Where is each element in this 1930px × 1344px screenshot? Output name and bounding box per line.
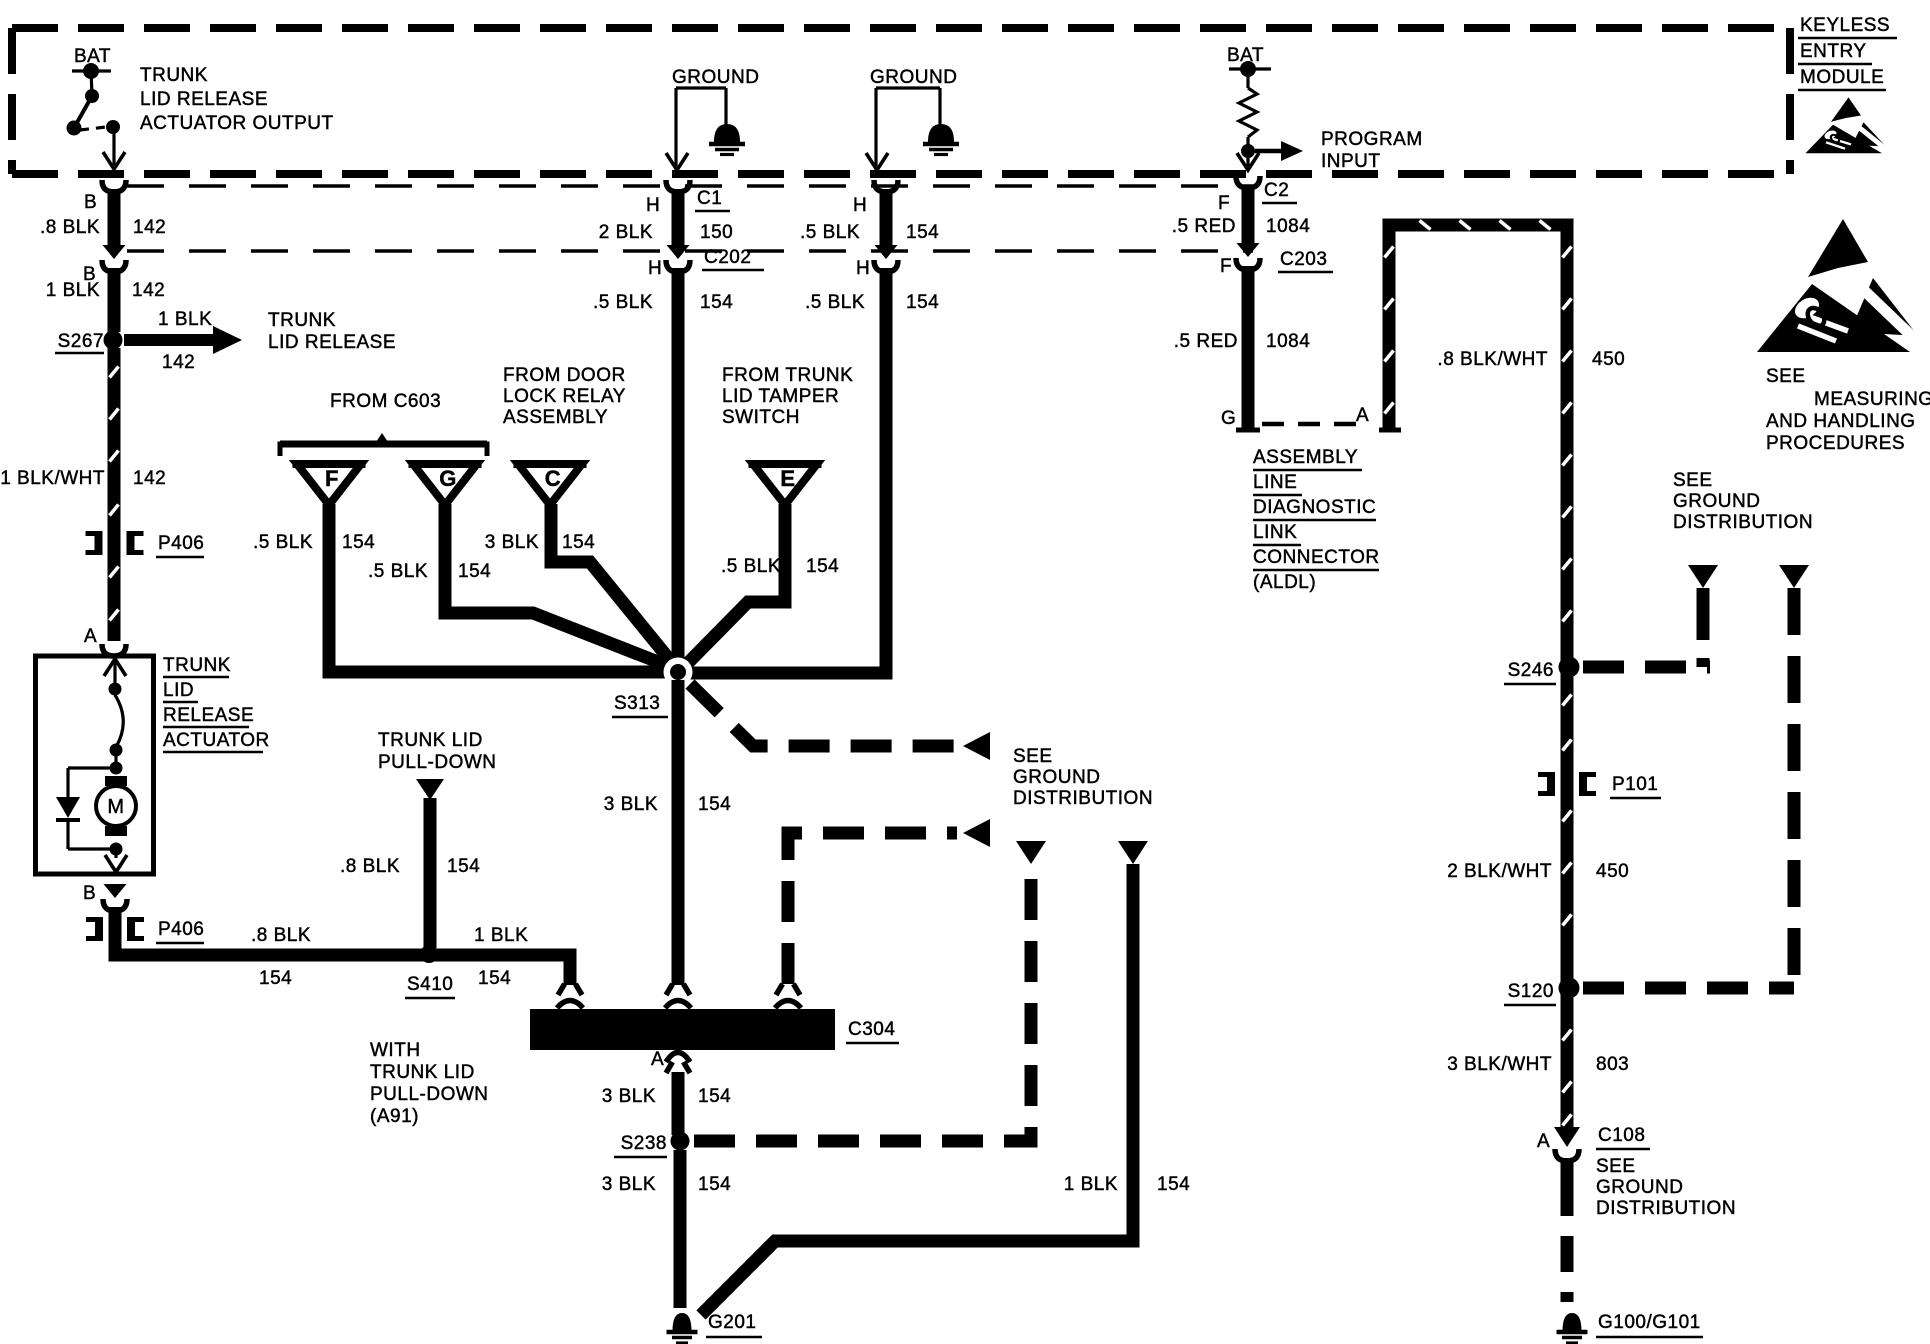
connector C108 name (1596, 1125, 1650, 1149)
svg-text:TRUNK LID: TRUNK LID (378, 730, 483, 751)
svg-text:S120: S120 (1508, 981, 1554, 1002)
svg-text:SEE: SEE (1766, 366, 1806, 387)
TRUNK LID RELEASE ACTUATOR OUTPUT label (140, 65, 334, 134)
svg-text:TRUNK: TRUNK (163, 655, 231, 676)
label .8 BLK (40, 217, 100, 238)
svg-text:1084: 1084 (1266, 216, 1310, 237)
trunk lid release actuator box (36, 656, 154, 874)
arrow into module edge (666, 153, 688, 170)
wire 3 BLK 154 from S238 to G201 (674, 1150, 687, 1308)
connector C108 pin A arrow (1554, 1127, 1580, 1147)
junction to motor (110, 754, 123, 775)
svg-text:154: 154 (259, 968, 292, 989)
svg-text:KEYLESS: KEYLESS (1800, 15, 1890, 36)
svg-text:G100/G101: G100/G101 (1598, 1312, 1701, 1333)
pin A label (1356, 405, 1369, 426)
switch blade (67, 96, 93, 136)
svg-text:154: 154 (1157, 1174, 1190, 1195)
wire .5 RED 1084 (1242, 185, 1255, 243)
dashed wire S238 to ground distribution arrow (694, 866, 1031, 1141)
PROGRAM INPUT label (1321, 129, 1423, 172)
GROUND label (left) (672, 67, 759, 88)
svg-text:142: 142 (133, 217, 166, 238)
label 154 (478, 968, 511, 989)
svg-text:(A91): (A91) (370, 1106, 419, 1127)
svg-text:LID: LID (163, 680, 194, 701)
label 154 (F) (342, 532, 375, 553)
wire 2 BLK 150 (672, 189, 685, 245)
svg-text:ASSEMBLY: ASSEMBLY (503, 407, 608, 428)
connector C203 pin F hook (1236, 258, 1260, 270)
keyless entry module dashed box: right edge (1786, 28, 1794, 174)
svg-text:154: 154 (562, 532, 595, 553)
actuator output arrow (down) (105, 855, 127, 872)
svg-text:154: 154 (698, 794, 731, 815)
in-line connector P406 (86, 531, 205, 557)
svg-text:GROUND: GROUND (1013, 767, 1100, 788)
svg-text:LINE: LINE (1253, 472, 1297, 493)
svg-text:F: F (1220, 256, 1232, 277)
svg-text:S267: S267 (58, 331, 104, 352)
C304 cavity hook (middle) (665, 1001, 691, 1009)
off-page arrow (from above, right) (1779, 565, 1809, 588)
svg-text:A: A (1356, 405, 1369, 426)
trunk lid pull-down feed arrow (416, 779, 444, 800)
connector C2 cavity F hook (1236, 176, 1260, 188)
connector triangle C (514, 464, 587, 505)
svg-text:2 BLK: 2 BLK (599, 222, 653, 243)
label 150 (700, 222, 733, 243)
node to program input (1241, 144, 1255, 158)
svg-text:.8 BLK: .8 BLK (40, 217, 100, 238)
svg-text:H: H (646, 195, 660, 216)
svg-text:SWITCH: SWITCH (722, 407, 800, 428)
GROUND label (right) (870, 67, 957, 88)
connector C1 cavity H hook (2nd ground wire) (874, 180, 898, 192)
svg-text:FROM TRUNK: FROM TRUNK (722, 365, 853, 386)
C304 cavity flare (right, dashed wire) (776, 984, 800, 995)
switch throw dashed link (80, 127, 106, 130)
label .5 BLK (G) (368, 561, 428, 582)
svg-text:.8 BLK/WHT: .8 BLK/WHT (1437, 349, 1548, 370)
label 154 (E) (806, 556, 839, 577)
label 1084 (1266, 216, 1310, 237)
off-page arrow (from above) (1016, 841, 1046, 864)
C304 cavity flare (left) (558, 984, 582, 995)
svg-text:C304: C304 (848, 1019, 895, 1040)
svg-text:GROUND: GROUND (672, 67, 759, 88)
svg-text:1 BLK: 1 BLK (46, 280, 100, 301)
dashed wire (right) to S120 (1788, 588, 1801, 995)
svg-text:S410: S410 (407, 974, 453, 995)
resistor (pull-up) (1239, 69, 1257, 166)
svg-text:B: B (84, 192, 97, 213)
ALDL pin G foot (1236, 428, 1260, 433)
wire B .8 BLK 142 (108, 189, 121, 245)
label 3 BLK (602, 1086, 656, 1107)
ground symbol (left module ground) (709, 124, 745, 155)
svg-text:154: 154 (906, 292, 939, 313)
dashed wire S246 to ground distribution (1583, 661, 1710, 674)
svg-text:TRUNK LID: TRUNK LID (370, 1062, 475, 1083)
pin A label (84, 626, 97, 647)
pin A label (1537, 1131, 1550, 1152)
label 1 BLK (arrow) (158, 309, 212, 330)
svg-text:154: 154 (342, 532, 375, 553)
SEE GROUND DISTRIBUTION label (bottom right) (1596, 1156, 1736, 1219)
pin B label (C202) (83, 264, 96, 285)
pin F label (C203) (1220, 256, 1232, 277)
svg-text:.5 BLK: .5 BLK (800, 222, 860, 243)
label 450 (1596, 861, 1629, 882)
ALDL pin A foot (1379, 428, 1401, 433)
svg-text:150: 150 (700, 222, 733, 243)
connector C202 pin H hook (666, 260, 690, 272)
splice S120 (1504, 978, 1580, 1006)
pin F label (1218, 193, 1230, 214)
diode branch wire (68, 768, 116, 797)
connector C1 name (695, 188, 730, 211)
svg-text:SEE: SEE (1596, 1156, 1636, 1177)
svg-text:1084: 1084 (1266, 331, 1310, 352)
pin B hook (103, 899, 127, 911)
svg-text:LINK: LINK (1253, 522, 1297, 543)
svg-text:1 BLK: 1 BLK (1064, 1174, 1118, 1195)
bracket over F and G (280, 433, 487, 456)
label 154 (698, 794, 731, 815)
svg-text:803: 803 (1596, 1054, 1629, 1075)
actuator switch arc (115, 695, 123, 747)
label 2 BLK (599, 222, 653, 243)
wire 1 BLK 154 to G201 (701, 864, 1133, 1315)
connector C202 name (702, 247, 764, 270)
connector triangle E (749, 464, 822, 505)
pin B label (83, 883, 96, 904)
label 142 (132, 280, 165, 301)
splice S410 (405, 945, 455, 998)
svg-text:P101: P101 (1612, 774, 1658, 795)
BAT terminal bar (1229, 61, 1271, 77)
svg-text:RELEASE: RELEASE (163, 705, 254, 726)
svg-text:C203: C203 (1280, 249, 1327, 270)
svg-text:DISTRIBUTION: DISTRIBUTION (1673, 512, 1813, 533)
svg-text:H: H (648, 258, 662, 279)
SEE GROUND DISTRIBUTION label (middle) (1013, 746, 1153, 809)
svg-text:GROUND: GROUND (870, 67, 957, 88)
svg-text:3 BLK: 3 BLK (602, 1086, 656, 1107)
svg-text:.8 BLK: .8 BLK (251, 925, 311, 946)
svg-text:.5 RED: .5 RED (1172, 216, 1236, 237)
svg-text:3 BLK: 3 BLK (602, 1174, 656, 1195)
BAT terminal bar (72, 63, 111, 79)
wire .5 BLK 154 from C202 to S313 (672, 268, 685, 665)
svg-text:450: 450 (1596, 861, 1629, 882)
in-line connector P101 (1538, 772, 1661, 798)
svg-text:A: A (84, 626, 97, 647)
label .5 BLK (805, 292, 865, 313)
label 154 (447, 856, 480, 877)
svg-text:M: M (107, 796, 124, 818)
wire 1 BLK/WHT 142 (110, 348, 119, 641)
svg-text:C1: C1 (697, 188, 722, 209)
wire .5 BLK 154 from G to S313 (445, 504, 676, 669)
label 2 BLK/WHT (1447, 861, 1552, 882)
svg-text:154: 154 (700, 292, 733, 313)
ground G201 (667, 1312, 763, 1343)
svg-text:TRUNK: TRUNK (140, 65, 208, 86)
svg-text:S313: S313 (614, 693, 660, 714)
connector C1 cavity B hook (102, 180, 126, 192)
SEE GROUND DISTRIBUTION label (right top) (1673, 470, 1813, 533)
C304 cavity hook (left) (557, 1001, 583, 1009)
wire from switch to module edge (112, 127, 115, 165)
pin A label (651, 1049, 664, 1070)
diode CR (clamp) (56, 797, 80, 820)
pin H label (853, 195, 867, 216)
label .5 BLK (E) (721, 556, 781, 577)
svg-text:3 BLK: 3 BLK (604, 794, 658, 815)
label 3 BLK/WHT (1447, 1054, 1552, 1075)
label .8 BLK/WHT (1437, 349, 1548, 370)
wire 3 BLK 154 from C304 to S238 (672, 1072, 685, 1135)
svg-text:154: 154 (447, 856, 480, 877)
label 154 (G) (458, 561, 491, 582)
actuator pin A hook (102, 644, 126, 656)
svg-text:H: H (853, 195, 867, 216)
TRUNK LID RELEASE label (268, 310, 396, 353)
label 1 BLK (474, 925, 528, 946)
svg-text:154: 154 (806, 556, 839, 577)
svg-text:WITH: WITH (370, 1040, 421, 1061)
splice S246 (1504, 657, 1580, 685)
TRUNK LID PULL-DOWN label (378, 730, 497, 773)
splice S313 label (612, 693, 668, 717)
svg-text:142: 142 (162, 352, 195, 373)
wire to actuator pin A (110, 567, 119, 621)
svg-text:1 BLK: 1 BLK (158, 309, 212, 330)
label 1084 (1266, 331, 1310, 352)
switch output contact (106, 120, 120, 134)
connector C202 pin B hook (102, 260, 126, 272)
wire B to P406 (109, 907, 122, 949)
label .5 BLK (593, 292, 653, 313)
label 3 BLK (604, 794, 658, 815)
label 450 (1592, 349, 1625, 370)
svg-text:G201: G201 (708, 1312, 756, 1333)
svg-text:GROUND: GROUND (1673, 491, 1760, 512)
svg-text:C202: C202 (704, 247, 751, 268)
program input arrow (1255, 141, 1303, 161)
splice S238 (614, 1132, 690, 1158)
svg-text:A: A (651, 1049, 664, 1070)
svg-text:SEE: SEE (1673, 470, 1713, 491)
off-page arrow (see ground distribution) (963, 819, 990, 847)
svg-text:G: G (439, 466, 457, 491)
KEYLESS ENTRY MODULE label (1798, 15, 1897, 90)
trunk lid release output arrow (124, 326, 242, 354)
svg-text:LOCK RELAY: LOCK RELAY (503, 386, 626, 407)
ASSEMBLY LINE DIAGNOSTIC LINK CONNECTOR (ALDL) label (1253, 447, 1380, 593)
svg-text:PULL-DOWN: PULL-DOWN (378, 752, 497, 773)
splice S313 node (664, 658, 693, 687)
wire .8 BLK 154 to S410 and C304 (115, 942, 570, 985)
WITH TRUNK LID PULL-DOWN (A91) label (370, 1040, 489, 1127)
dashed wire S313 to ground distribution (690, 684, 957, 746)
wire 1 BLK 142 to S267 (108, 268, 121, 332)
svg-text:154: 154 (458, 561, 491, 582)
off-page arrow (right, from above) (1118, 841, 1148, 864)
svg-text:B: B (83, 883, 96, 904)
connector C202 pin H flare (2nd) (875, 245, 898, 259)
svg-text:FROM C603: FROM C603 (330, 391, 441, 412)
label 3 BLK (C) (485, 532, 539, 553)
label 154 (698, 1086, 731, 1107)
svg-text:G: G (1221, 408, 1236, 429)
svg-text:.5 BLK: .5 BLK (593, 292, 653, 313)
wire .8 BLK/WHT 450 from ALDL A up and over (1385, 221, 1572, 1128)
svg-text:PROGRAM: PROGRAM (1321, 129, 1423, 150)
svg-text:.5 BLK: .5 BLK (368, 561, 428, 582)
connector triangle G (409, 464, 482, 505)
label 154 (700, 292, 733, 313)
wire .5 BLK 154 from F to S313 (329, 504, 672, 672)
svg-text:GROUND: GROUND (1596, 1177, 1683, 1198)
ground symbol (right module ground) (923, 124, 959, 155)
FROM TRUNK LID TAMPER SWITCH label (722, 365, 853, 428)
arrow into module edge (866, 153, 888, 170)
label 1 BLK (1064, 1174, 1118, 1195)
svg-text:154: 154 (906, 222, 939, 243)
svg-text:PULL-DOWN: PULL-DOWN (370, 1084, 489, 1105)
C304 pin A flare (below) (666, 1062, 690, 1073)
connector triangle F (293, 464, 366, 505)
label 3 BLK (602, 1174, 656, 1195)
svg-text:450: 450 (1592, 349, 1625, 370)
connector C202 pin H flare (667, 245, 690, 259)
connector row C1/C2 thin dashed line (127, 184, 1253, 187)
actuator contact dot (110, 744, 123, 757)
svg-text:C2: C2 (1264, 180, 1289, 201)
label 154 (1157, 1174, 1190, 1195)
label 154 (906, 292, 939, 313)
label 142 (arrow) (162, 352, 195, 373)
ESD symbol (large) (1752, 219, 1922, 352)
svg-text:S246: S246 (1508, 660, 1554, 681)
pin H label (2nd) (856, 258, 870, 279)
svg-text:LID RELEASE: LID RELEASE (140, 89, 268, 110)
svg-text:142: 142 (132, 280, 165, 301)
motor M (96, 776, 136, 836)
BAT switch (trunk lid release actuator output): BAT label (74, 46, 111, 67)
ground G100/G101 (1557, 1312, 1704, 1343)
svg-text:DISTRIBUTION: DISTRIBUTION (1596, 1198, 1736, 1219)
connector C202 pin B flare (103, 245, 126, 259)
wire 3 BLK 154 from S313 to C304 (672, 680, 685, 985)
svg-text:TRUNK: TRUNK (268, 310, 336, 331)
diode to motor-bottom wire (68, 822, 116, 849)
keyless entry module dashed box: bottom edge (12, 170, 1790, 178)
wire .5 BLK 154 from E to S313 (681, 504, 785, 670)
SEE MEASURING AND HANDLING PROCEDURES label (1766, 366, 1930, 454)
splice S267 (55, 331, 123, 354)
off-page arrow (from above) (1688, 565, 1718, 588)
motor bottom junction (110, 843, 123, 859)
label .5 RED (1174, 331, 1238, 352)
dashed wire C304 to ground distribution (788, 833, 957, 984)
TRUNK LID RELEASE ACTUATOR label (163, 655, 270, 752)
connector C2 name (1262, 180, 1297, 203)
svg-text:F: F (1218, 193, 1230, 214)
label 142 (133, 468, 166, 489)
connector C203 name (1278, 249, 1333, 272)
label .8 BLK (251, 925, 311, 946)
svg-text:3 BLK: 3 BLK (485, 532, 539, 553)
svg-text:PROCEDURES: PROCEDURES (1766, 433, 1905, 454)
svg-text:ASSEMBLY: ASSEMBLY (1253, 447, 1358, 468)
svg-text:C: C (545, 466, 561, 491)
svg-text:1 BLK: 1 BLK (474, 925, 528, 946)
svg-text:DIAGNOSTIC: DIAGNOSTIC (1253, 497, 1376, 518)
label 154 (C) (562, 532, 595, 553)
pin B label (84, 192, 97, 213)
svg-text:2 BLK/WHT: 2 BLK/WHT (1447, 861, 1552, 882)
keyless entry module dashed box: left edge (8, 28, 16, 174)
label 154 (906, 222, 939, 243)
svg-text:LID TAMPER: LID TAMPER (722, 386, 839, 407)
C304 cavity hook (right) (775, 1001, 801, 1009)
off-page arrow (see ground distribution) (963, 732, 990, 760)
svg-text:F: F (325, 466, 339, 491)
svg-text:AND HANDLING: AND HANDLING (1766, 411, 1916, 432)
FROM DOOR LOCK RELAY ASSEMBLY label (503, 365, 626, 428)
wire .5 BLK 154 down to S313 horizontal (690, 268, 886, 673)
pin H label (646, 195, 660, 216)
label .5 BLK (F) (253, 532, 313, 553)
wire .5 BLK 154 (2nd) (880, 189, 893, 245)
wire .8 BLK 154 (pull-down) (424, 798, 437, 948)
connector row C202/C203 thin dashed line (127, 249, 1253, 252)
label 154 (259, 968, 292, 989)
svg-text:A: A (1537, 1131, 1550, 1152)
arrow out of module (open chevron) (103, 152, 125, 169)
svg-text:154: 154 (478, 968, 511, 989)
ESD symbol (small) (1803, 97, 1888, 153)
svg-text:1 BLK/WHT: 1 BLK/WHT (0, 468, 105, 489)
keyless entry module dashed box: top edge (12, 24, 1790, 32)
arrow into module edge (1237, 153, 1259, 170)
svg-text:CONNECTOR: CONNECTOR (1253, 547, 1380, 568)
BAT label (program input) (1227, 45, 1264, 66)
actuator internal contact arrow (up) (104, 659, 126, 696)
svg-text:142: 142 (133, 468, 166, 489)
connector C1 cavity H hook (666, 180, 690, 192)
svg-text:.5 BLK: .5 BLK (805, 292, 865, 313)
svg-text:.5 RED: .5 RED (1174, 331, 1238, 352)
C304 pin A hook (below) (666, 1053, 690, 1063)
label .8 BLK (340, 856, 400, 877)
svg-text:INPUT: INPUT (1321, 151, 1381, 172)
svg-text:154: 154 (698, 1174, 731, 1195)
ground reference wire (right) (876, 88, 940, 166)
label 803 (1596, 1054, 1629, 1075)
C108 hook (1555, 1149, 1579, 1161)
svg-text:(ALDL): (ALDL) (1253, 572, 1316, 593)
svg-text:LID RELEASE: LID RELEASE (268, 332, 396, 353)
actuator pin B flare (104, 884, 127, 898)
svg-text:.8 BLK: .8 BLK (340, 856, 400, 877)
connector C203 pin F flare (1237, 243, 1260, 257)
label .5 BLK (800, 222, 860, 243)
